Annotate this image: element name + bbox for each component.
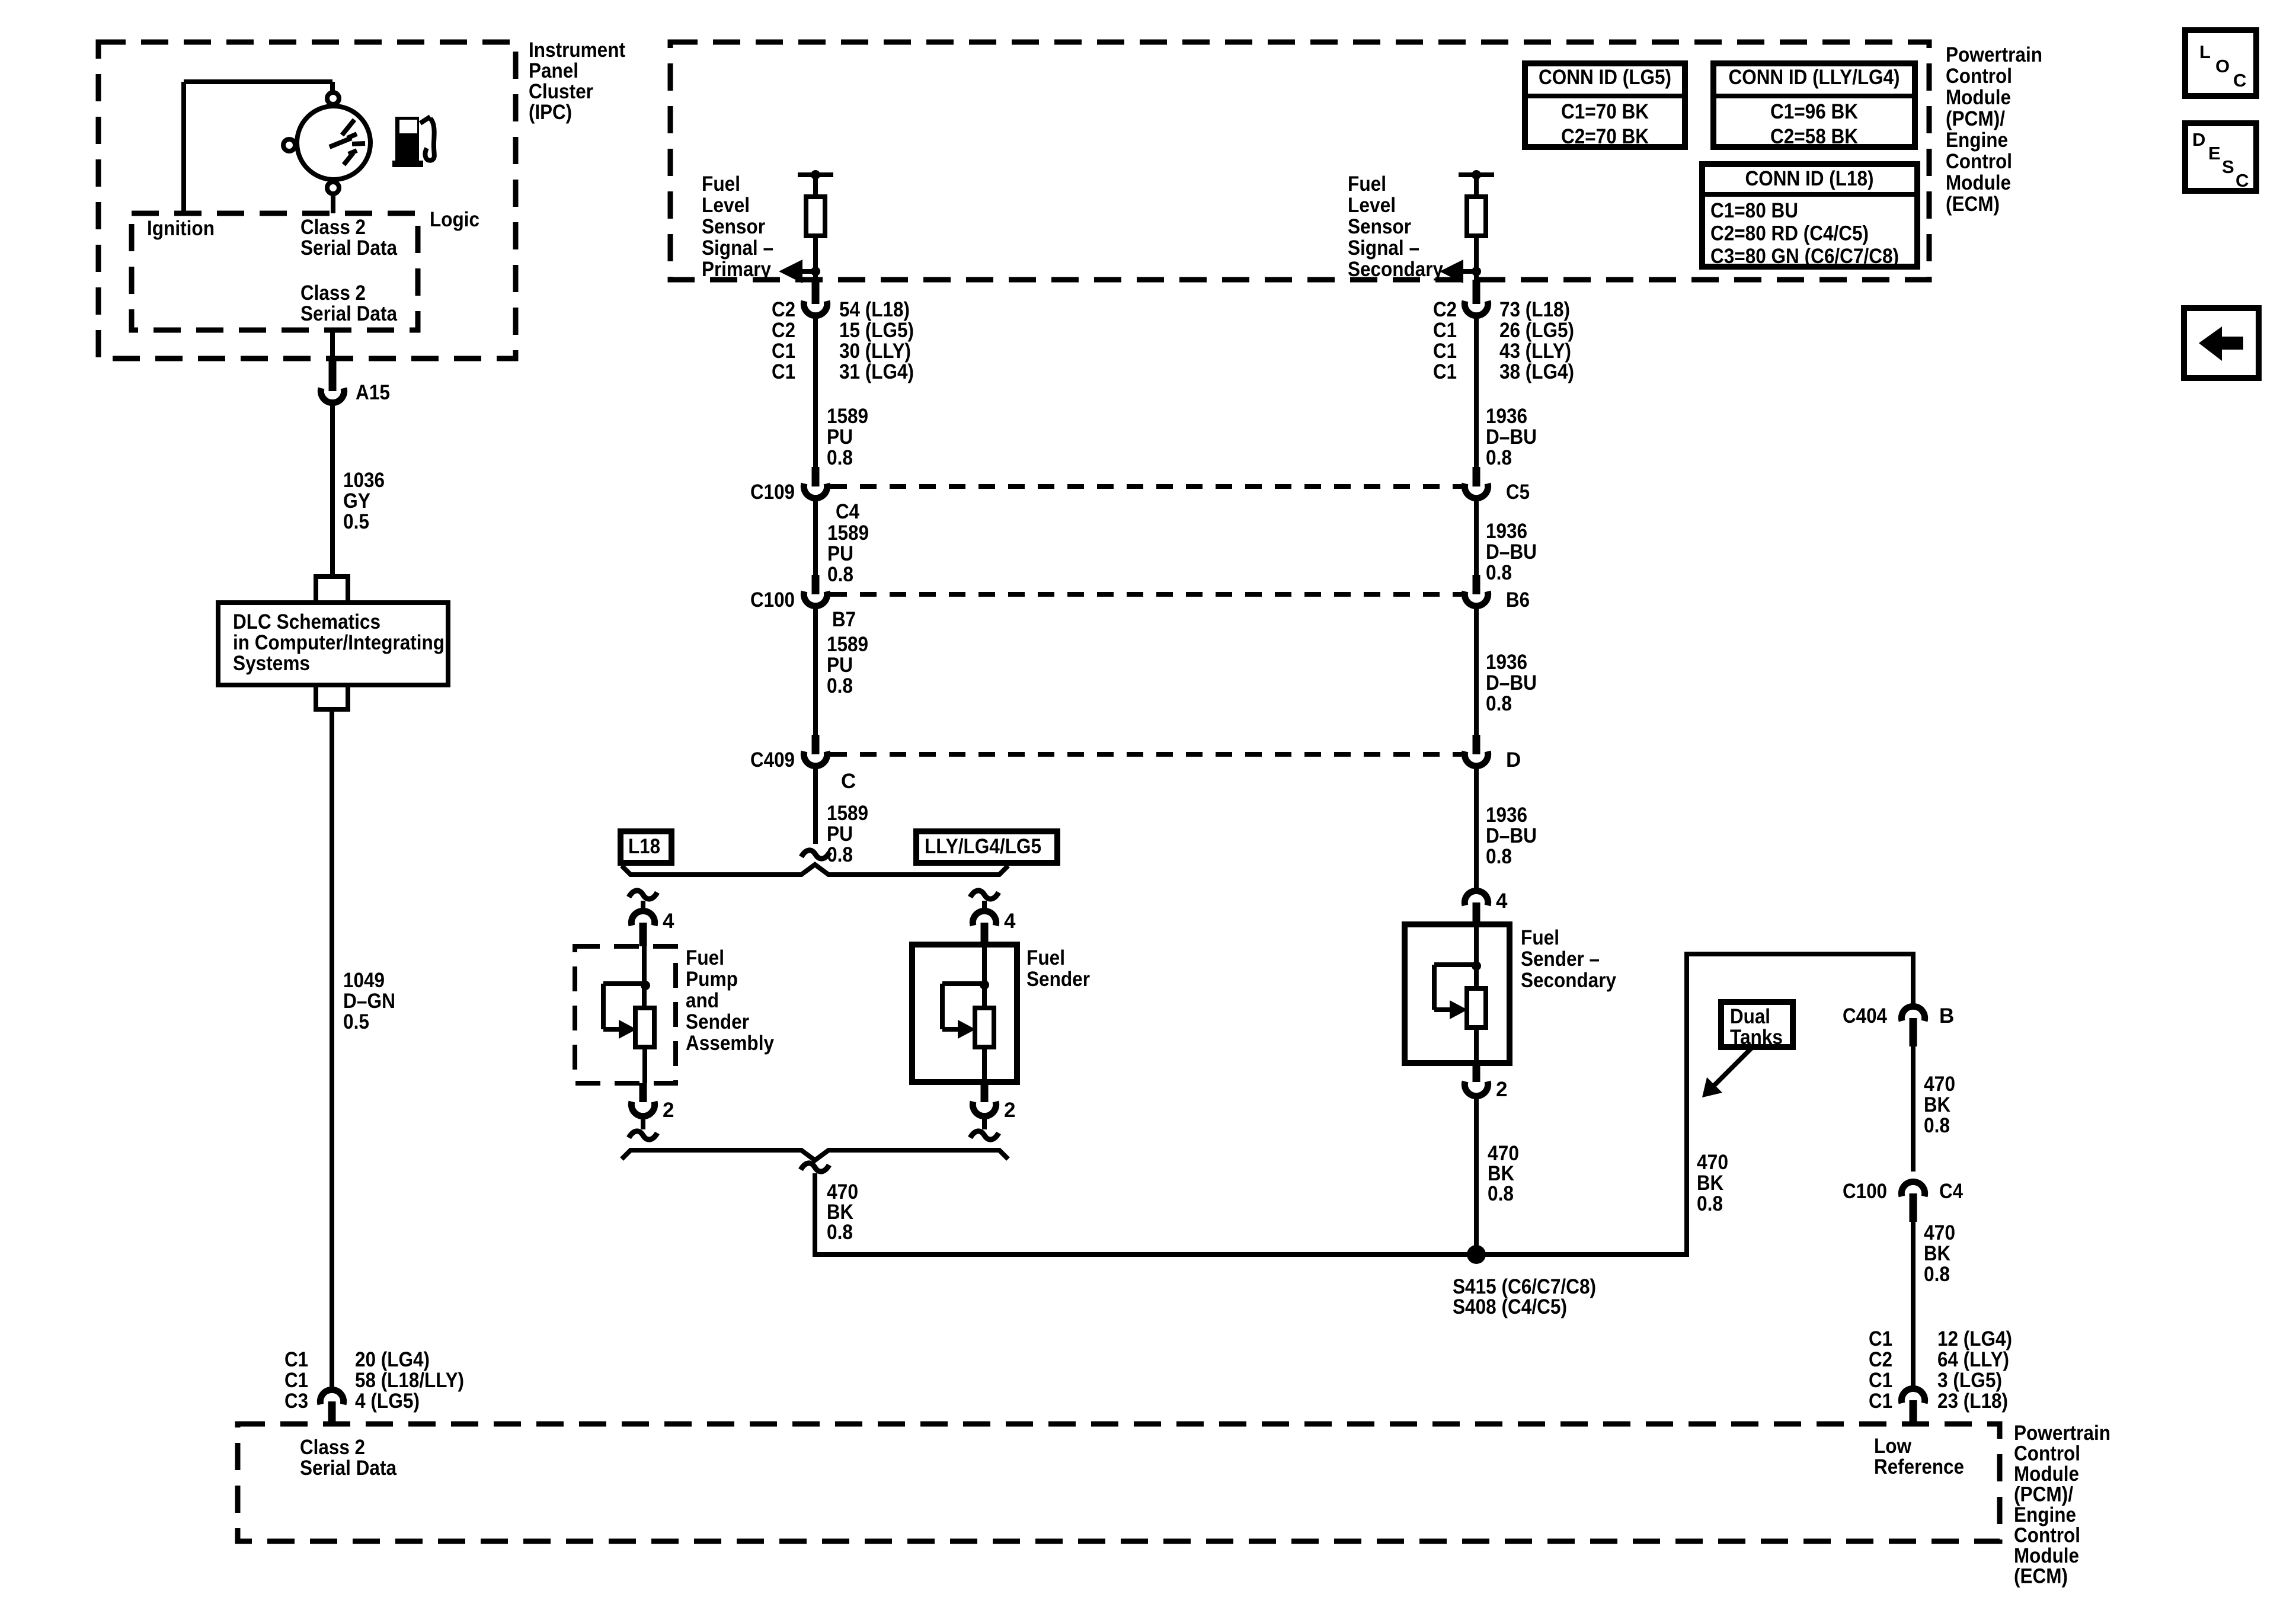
gauge terminal top	[327, 92, 339, 104]
connector C109 cup	[804, 484, 827, 498]
svg-text:0.5: 0.5	[343, 1010, 369, 1033]
svg-text:Ignition: Ignition	[147, 217, 215, 240]
svg-text:26 (LG5): 26 (LG5)	[1499, 319, 1574, 342]
svg-text:C4: C4	[836, 500, 859, 523]
LLY branch wire	[982, 901, 987, 911]
LLY bottom squiggle	[970, 1131, 999, 1140]
svg-text:0.8: 0.8	[1486, 692, 1512, 715]
svg-text:Sender: Sender	[686, 1010, 749, 1033]
off-page bracket below DLC box	[314, 707, 350, 712]
secondary sensor resistor	[1467, 197, 1486, 236]
fuel pump icon	[395, 117, 419, 162]
svg-text:C1: C1	[772, 360, 795, 383]
fuel pump sender internals	[642, 946, 647, 1008]
svg-text:30 (LLY): 30 (LLY)	[839, 340, 911, 363]
svg-text:64 (LLY): 64 (LLY)	[1937, 1348, 2009, 1371]
svg-text:20 (LG4): 20 (LG4)	[355, 1348, 430, 1371]
svg-text:D–BU: D–BU	[1486, 824, 1537, 847]
L18 bottom cup	[631, 1102, 654, 1116]
C409 dashed row	[830, 752, 1462, 757]
svg-text:Signal –: Signal –	[702, 236, 773, 260]
svg-text:Sender: Sender	[1027, 968, 1090, 991]
low reference connector pin	[1910, 1400, 1917, 1425]
svg-text:(ECM): (ECM)	[1946, 193, 2000, 216]
off-page bracket above DLC box	[314, 574, 350, 579]
L18 bottom pin 2	[639, 1083, 647, 1102]
svg-text:D: D	[1506, 748, 1521, 772]
svg-text:CONN ID (LLY/LG4): CONN ID (LLY/LG4)	[1729, 66, 1900, 89]
svg-text:43 (LLY): 43 (LLY)	[1499, 340, 1571, 363]
DESC legend box	[2185, 123, 2256, 191]
svg-text:Class 2: Class 2	[300, 281, 366, 305]
svg-text:in Computer/Integrating: in Computer/Integrating	[233, 631, 445, 654]
svg-text:Level: Level	[1348, 194, 1396, 217]
gauge terminal left	[283, 139, 295, 151]
wire gauge bottom to logic	[331, 194, 335, 213]
secondary signal tap arrow	[1462, 269, 1476, 274]
svg-text:Systems: Systems	[233, 652, 310, 675]
LLY branch connector cup	[973, 911, 996, 926]
svg-text:4: 4	[663, 910, 674, 933]
svg-text:C2: C2	[1869, 1348, 1892, 1371]
svg-text:15 (LG5): 15 (LG5)	[839, 319, 914, 342]
svg-text:CONN ID (LG5): CONN ID (LG5)	[1539, 66, 1671, 89]
svg-text:0.8: 0.8	[827, 1221, 853, 1244]
svg-text:S408 (C4/C5): S408 (C4/C5)	[1453, 1295, 1567, 1318]
secondary connector cup	[1464, 301, 1488, 316]
DLC Schematics box	[218, 603, 448, 685]
svg-text:54 (L18): 54 (L18)	[839, 298, 910, 321]
svg-text:C1: C1	[284, 1348, 308, 1371]
svg-text:C2: C2	[772, 298, 795, 321]
svg-text:Fuel: Fuel	[702, 172, 740, 196]
svg-text:L18: L18	[628, 835, 660, 858]
svg-text:Sensor: Sensor	[1348, 215, 1411, 238]
svg-text:Engine: Engine	[2014, 1503, 2076, 1526]
svg-text:CONN ID (L18): CONN ID (L18)	[1745, 167, 1874, 190]
svg-text:C5: C5	[1506, 481, 1530, 504]
svg-text:31 (LG4): 31 (LG4)	[839, 360, 914, 383]
secondary sensor wire lower	[1474, 236, 1479, 280]
LLY bottom pin 2	[981, 1082, 989, 1102]
svg-text:C1: C1	[284, 1369, 308, 1392]
primary sensor wire lower	[813, 236, 818, 280]
svg-text:C2: C2	[1433, 298, 1457, 321]
svg-text:C1: C1	[1869, 1390, 1892, 1413]
svg-text:Fuel: Fuel	[1027, 946, 1065, 969]
primary sensor resistor	[806, 197, 825, 236]
svg-text:Serial Data: Serial Data	[300, 236, 397, 260]
svg-text:Logic: Logic	[430, 208, 479, 231]
svg-text:Powertrain: Powertrain	[2014, 1422, 2110, 1445]
svg-text:73 (L18): 73 (L18)	[1499, 298, 1570, 321]
connector C409 cup	[804, 751, 827, 766]
svg-text:Class 2: Class 2	[300, 216, 366, 239]
svg-text:C109: C109	[750, 481, 795, 504]
back arrow legend box	[2184, 308, 2259, 378]
svg-text:1936: 1936	[1486, 651, 1527, 674]
svg-text:0.5: 0.5	[343, 510, 369, 533]
svg-text:PU: PU	[827, 822, 853, 846]
connector C5 pin	[1473, 467, 1480, 486]
LLY LG4 LG5 tag box	[916, 831, 1057, 863]
svg-text:BK: BK	[1924, 1093, 1950, 1116]
wire 470 BK return path	[815, 954, 1913, 1254]
L18 branch wire	[641, 901, 645, 911]
svg-text:Powertrain: Powertrain	[1946, 43, 2042, 66]
svg-text:Tanks: Tanks	[1730, 1026, 1783, 1049]
svg-text:Control: Control	[1946, 65, 2012, 88]
Dual Tanks box	[1721, 1002, 1793, 1047]
wire 470 BK right seg1	[1911, 1046, 1916, 1172]
svg-text:D–BU: D–BU	[1486, 425, 1537, 449]
svg-text:C1: C1	[1869, 1369, 1892, 1392]
CONN ID L18 box	[1702, 164, 1917, 267]
connector C100 C4 cup	[1901, 1182, 1924, 1196]
svg-text:Module: Module	[1946, 86, 2011, 109]
Logic dashed box	[132, 213, 418, 330]
fuel sender internals	[982, 945, 987, 1008]
svg-text:Sensor: Sensor	[702, 215, 765, 238]
svg-text:D–BU: D–BU	[1486, 671, 1537, 694]
svg-text:BK: BK	[1697, 1172, 1723, 1195]
svg-text:Control: Control	[2014, 1524, 2080, 1547]
low reference connector cup	[1901, 1388, 1924, 1403]
wire logic to A15	[330, 330, 335, 359]
Fuel Pump and Sender Assembly box	[575, 946, 676, 1083]
svg-text:4: 4	[1496, 889, 1508, 913]
wire 470 squiggle below brace	[801, 1163, 829, 1172]
svg-text:C: C	[841, 770, 856, 793]
connector C409 pin	[812, 735, 820, 754]
svg-text:Sender –: Sender –	[1521, 948, 1600, 971]
PCM top dashed box	[670, 42, 1929, 280]
svg-text:C2=58 BK: C2=58 BK	[1770, 125, 1858, 148]
svg-text:D–BU: D–BU	[1486, 540, 1537, 564]
wire 470 BK right seg2	[1911, 1222, 1916, 1389]
svg-text:C1: C1	[1433, 360, 1457, 383]
primary connector cup	[804, 301, 827, 316]
svg-text:Signal –: Signal –	[1348, 236, 1419, 260]
wire 1589 seg1	[813, 315, 818, 467]
svg-text:Secondary: Secondary	[1521, 969, 1616, 992]
wire 470 BK secondary	[1474, 1096, 1479, 1254]
svg-text:Fuel: Fuel	[1348, 172, 1386, 196]
PCM bottom dashed box	[238, 1424, 2000, 1541]
svg-text:C3=80 GN (C6/C7/C8): C3=80 GN (C6/C7/C8)	[1710, 245, 1899, 268]
svg-text:BK: BK	[1924, 1242, 1950, 1265]
wire 1036 upper	[330, 402, 335, 575]
LLY bottom cup	[973, 1102, 996, 1116]
svg-text:C1=80 BU: C1=80 BU	[1710, 199, 1798, 222]
wire ignition loop	[184, 79, 332, 84]
svg-text:0.8: 0.8	[827, 674, 853, 697]
secondary sensor top bar	[1459, 172, 1494, 177]
svg-text:Assembly: Assembly	[686, 1032, 774, 1055]
wire break squiggle above brace	[801, 850, 830, 859]
L18 branch connector pin	[639, 923, 647, 946]
L18 branch connector cup	[631, 911, 654, 926]
svg-text:Class 2: Class 2	[300, 1436, 365, 1459]
connector C404 pin	[1910, 1018, 1917, 1046]
svg-text:(ECM): (ECM)	[2014, 1565, 2068, 1588]
svg-text:Panel: Panel	[529, 59, 578, 82]
svg-text:Control: Control	[1946, 150, 2012, 173]
svg-text:1049: 1049	[343, 969, 385, 992]
connector D cup	[1464, 751, 1488, 766]
secondary connector pin at PCM	[1473, 280, 1480, 304]
svg-text:DLC Schematics: DLC Schematics	[233, 610, 380, 633]
gauge terminal bottom	[327, 182, 339, 194]
svg-text:0.8: 0.8	[1697, 1192, 1723, 1215]
L18 bottom wire	[641, 1116, 645, 1129]
svg-text:Cluster: Cluster	[529, 80, 593, 103]
svg-text:C409: C409	[750, 748, 795, 772]
connector C5 cup	[1464, 484, 1488, 498]
svg-text:S: S	[2222, 156, 2234, 177]
svg-text:1936: 1936	[1486, 520, 1527, 543]
Dual Tanks arrow	[1710, 1045, 1754, 1089]
svg-text:Control: Control	[2014, 1442, 2080, 1465]
secondary bottom pin 2	[1473, 1063, 1480, 1082]
connector A15 cup	[321, 388, 344, 403]
svg-text:0.8: 0.8	[1486, 845, 1512, 868]
top option brace	[622, 865, 1008, 875]
connector C404 cup	[1901, 1006, 1924, 1021]
svg-text:(PCM)/: (PCM)/	[1946, 107, 2005, 130]
svg-text:3 (LG5): 3 (LG5)	[1937, 1369, 2002, 1392]
svg-text:C2: C2	[772, 319, 795, 342]
svg-text:2: 2	[1004, 1099, 1015, 1122]
svg-text:Primary: Primary	[702, 258, 771, 281]
svg-text:C3: C3	[284, 1390, 308, 1413]
C109 dashed row	[830, 484, 1462, 489]
primary connector pin at PCM	[812, 280, 820, 304]
svg-text:2: 2	[663, 1099, 674, 1122]
svg-text:B7: B7	[832, 608, 856, 631]
L18 tag box	[621, 831, 671, 863]
primary sensor top bar	[798, 172, 833, 177]
svg-text:Module: Module	[2014, 1462, 2079, 1486]
svg-text:C1: C1	[1869, 1327, 1892, 1350]
connector C100 C4 pin	[1910, 1193, 1917, 1222]
CONN ID LG5 box	[1525, 63, 1685, 147]
connector A15 pin	[329, 359, 337, 391]
LLY bottom wire	[982, 1116, 987, 1129]
LOC legend box	[2185, 30, 2256, 96]
fuel sender secondary internals	[1474, 924, 1479, 990]
secondary component connector pin	[1473, 902, 1480, 924]
wire 1936 seg1	[1474, 315, 1479, 467]
svg-text:470: 470	[1924, 1221, 1955, 1244]
svg-text:Level: Level	[702, 194, 750, 217]
IPC dashed box	[98, 42, 516, 359]
svg-text:C2=70 BK: C2=70 BK	[1561, 125, 1649, 148]
svg-text:Dual: Dual	[1730, 1005, 1770, 1028]
bottom left connector pin	[328, 1401, 336, 1425]
LLY branch connector pin	[981, 923, 989, 945]
bottom left connector cup	[320, 1390, 343, 1404]
svg-text:470: 470	[1697, 1151, 1728, 1174]
connector B6 cup	[1464, 591, 1488, 606]
svg-text:0.8: 0.8	[1924, 1263, 1950, 1286]
L18 branch squiggle	[629, 891, 657, 899]
svg-text:Engine: Engine	[1946, 129, 2008, 152]
svg-text:Instrument: Instrument	[529, 39, 625, 62]
svg-text:LLY/LG4/LG5: LLY/LG4/LG5	[925, 835, 1041, 858]
svg-text:C1: C1	[1433, 340, 1457, 363]
secondary sensor wire upper	[1474, 175, 1479, 197]
svg-text:(IPC): (IPC)	[529, 101, 572, 124]
svg-text:D: D	[2192, 129, 2205, 150]
LLY branch squiggle	[970, 891, 999, 899]
svg-text:Module: Module	[2014, 1544, 2079, 1567]
svg-text:Low: Low	[1874, 1435, 1912, 1458]
wire 1049	[330, 709, 334, 1390]
connector C109 pin	[812, 467, 820, 486]
svg-text:0.8: 0.8	[827, 446, 853, 469]
connector C100 cup	[804, 591, 827, 606]
secondary bottom cup	[1464, 1081, 1488, 1096]
svg-text:GY: GY	[343, 489, 370, 513]
svg-text:C2=80 RD (C4/C5): C2=80 RD (C4/C5)	[1710, 222, 1869, 245]
svg-text:B6: B6	[1506, 588, 1530, 612]
svg-text:1936: 1936	[1486, 405, 1527, 428]
svg-text:and: and	[686, 989, 719, 1012]
svg-text:0.8: 0.8	[1486, 561, 1512, 584]
svg-text:38 (LG4): 38 (LG4)	[1499, 360, 1574, 383]
svg-text:1936: 1936	[1486, 804, 1527, 827]
fuel gauge G1	[297, 106, 370, 180]
svg-text:470: 470	[1924, 1073, 1955, 1096]
C100 dashed row	[830, 592, 1462, 597]
svg-text:0.8: 0.8	[827, 563, 853, 586]
bottom option brace	[622, 1150, 1008, 1160]
wire 1589 seg3	[813, 606, 818, 735]
svg-text:12 (LG4): 12 (LG4)	[1937, 1327, 2012, 1350]
svg-text:1589: 1589	[827, 633, 868, 656]
wire 1589 seg4	[813, 766, 818, 844]
svg-text:1036: 1036	[343, 469, 385, 492]
connector C100 pin	[812, 575, 820, 594]
svg-text:1589: 1589	[827, 802, 868, 825]
svg-text:Pump: Pump	[686, 968, 738, 991]
back arrow	[2199, 327, 2243, 361]
svg-text:Serial Data: Serial Data	[300, 302, 397, 325]
svg-text:L: L	[2199, 41, 2211, 62]
svg-text:Serial Data: Serial Data	[300, 1457, 396, 1480]
svg-text:C404: C404	[1843, 1004, 1887, 1028]
Fuel Sender box	[912, 945, 1017, 1082]
svg-text:B: B	[1939, 1004, 1954, 1028]
svg-text:C4: C4	[1939, 1180, 1963, 1203]
secondary component connector cup	[1464, 891, 1488, 905]
svg-text:C100: C100	[750, 588, 795, 612]
svg-text:58 (L18/LLY): 58 (L18/LLY)	[355, 1369, 464, 1392]
svg-text:C100: C100	[1843, 1180, 1887, 1203]
svg-text:1589: 1589	[827, 405, 868, 428]
primary signal tap arrow	[801, 269, 816, 274]
svg-text:0.8: 0.8	[1488, 1182, 1514, 1205]
svg-text:PU: PU	[827, 542, 853, 565]
svg-text:C: C	[2236, 170, 2249, 191]
svg-text:O: O	[2215, 56, 2230, 76]
splice S415	[1467, 1245, 1486, 1264]
svg-text:E: E	[2208, 143, 2221, 164]
svg-text:23 (L18): 23 (L18)	[1937, 1390, 2008, 1413]
svg-text:C1: C1	[772, 340, 795, 363]
svg-text:C1=96 BK: C1=96 BK	[1770, 100, 1858, 123]
svg-text:4 (LG5): 4 (LG5)	[355, 1390, 420, 1413]
wire 1936 seg2	[1474, 498, 1479, 575]
svg-text:2: 2	[1496, 1078, 1507, 1101]
CONN ID LLY LG4 box	[1713, 63, 1915, 147]
connector D pin	[1473, 735, 1480, 754]
svg-text:C: C	[2233, 70, 2246, 91]
svg-text:0.8: 0.8	[1486, 446, 1512, 469]
svg-text:C1=70 BK: C1=70 BK	[1561, 100, 1649, 123]
Fuel Sender Secondary box	[1405, 924, 1510, 1063]
svg-text:PU: PU	[827, 425, 853, 449]
svg-text:Module: Module	[1946, 171, 2011, 194]
wire 1936 seg4	[1474, 766, 1479, 891]
svg-text:C1: C1	[1433, 319, 1457, 342]
svg-text:Fuel: Fuel	[1521, 926, 1559, 949]
svg-text:(PCM)/: (PCM)/	[2014, 1483, 2073, 1506]
svg-text:0.8: 0.8	[1924, 1114, 1950, 1137]
svg-text:A15: A15	[356, 381, 390, 404]
svg-text:Fuel: Fuel	[686, 946, 724, 969]
svg-text:D–GN: D–GN	[343, 990, 395, 1013]
svg-text:Reference: Reference	[1874, 1455, 1964, 1478]
gauge needle and ticks	[342, 120, 354, 135]
svg-text:PU: PU	[827, 654, 853, 677]
primary sensor wire upper	[813, 175, 818, 197]
svg-text:Secondary: Secondary	[1348, 258, 1443, 281]
svg-text:1589: 1589	[827, 521, 869, 545]
wire 1936 seg3	[1474, 606, 1479, 735]
L18 bottom squiggle	[629, 1131, 657, 1140]
svg-text:4: 4	[1004, 910, 1016, 933]
wire 1589 seg2	[813, 498, 818, 575]
connector B6 pin	[1473, 575, 1480, 594]
